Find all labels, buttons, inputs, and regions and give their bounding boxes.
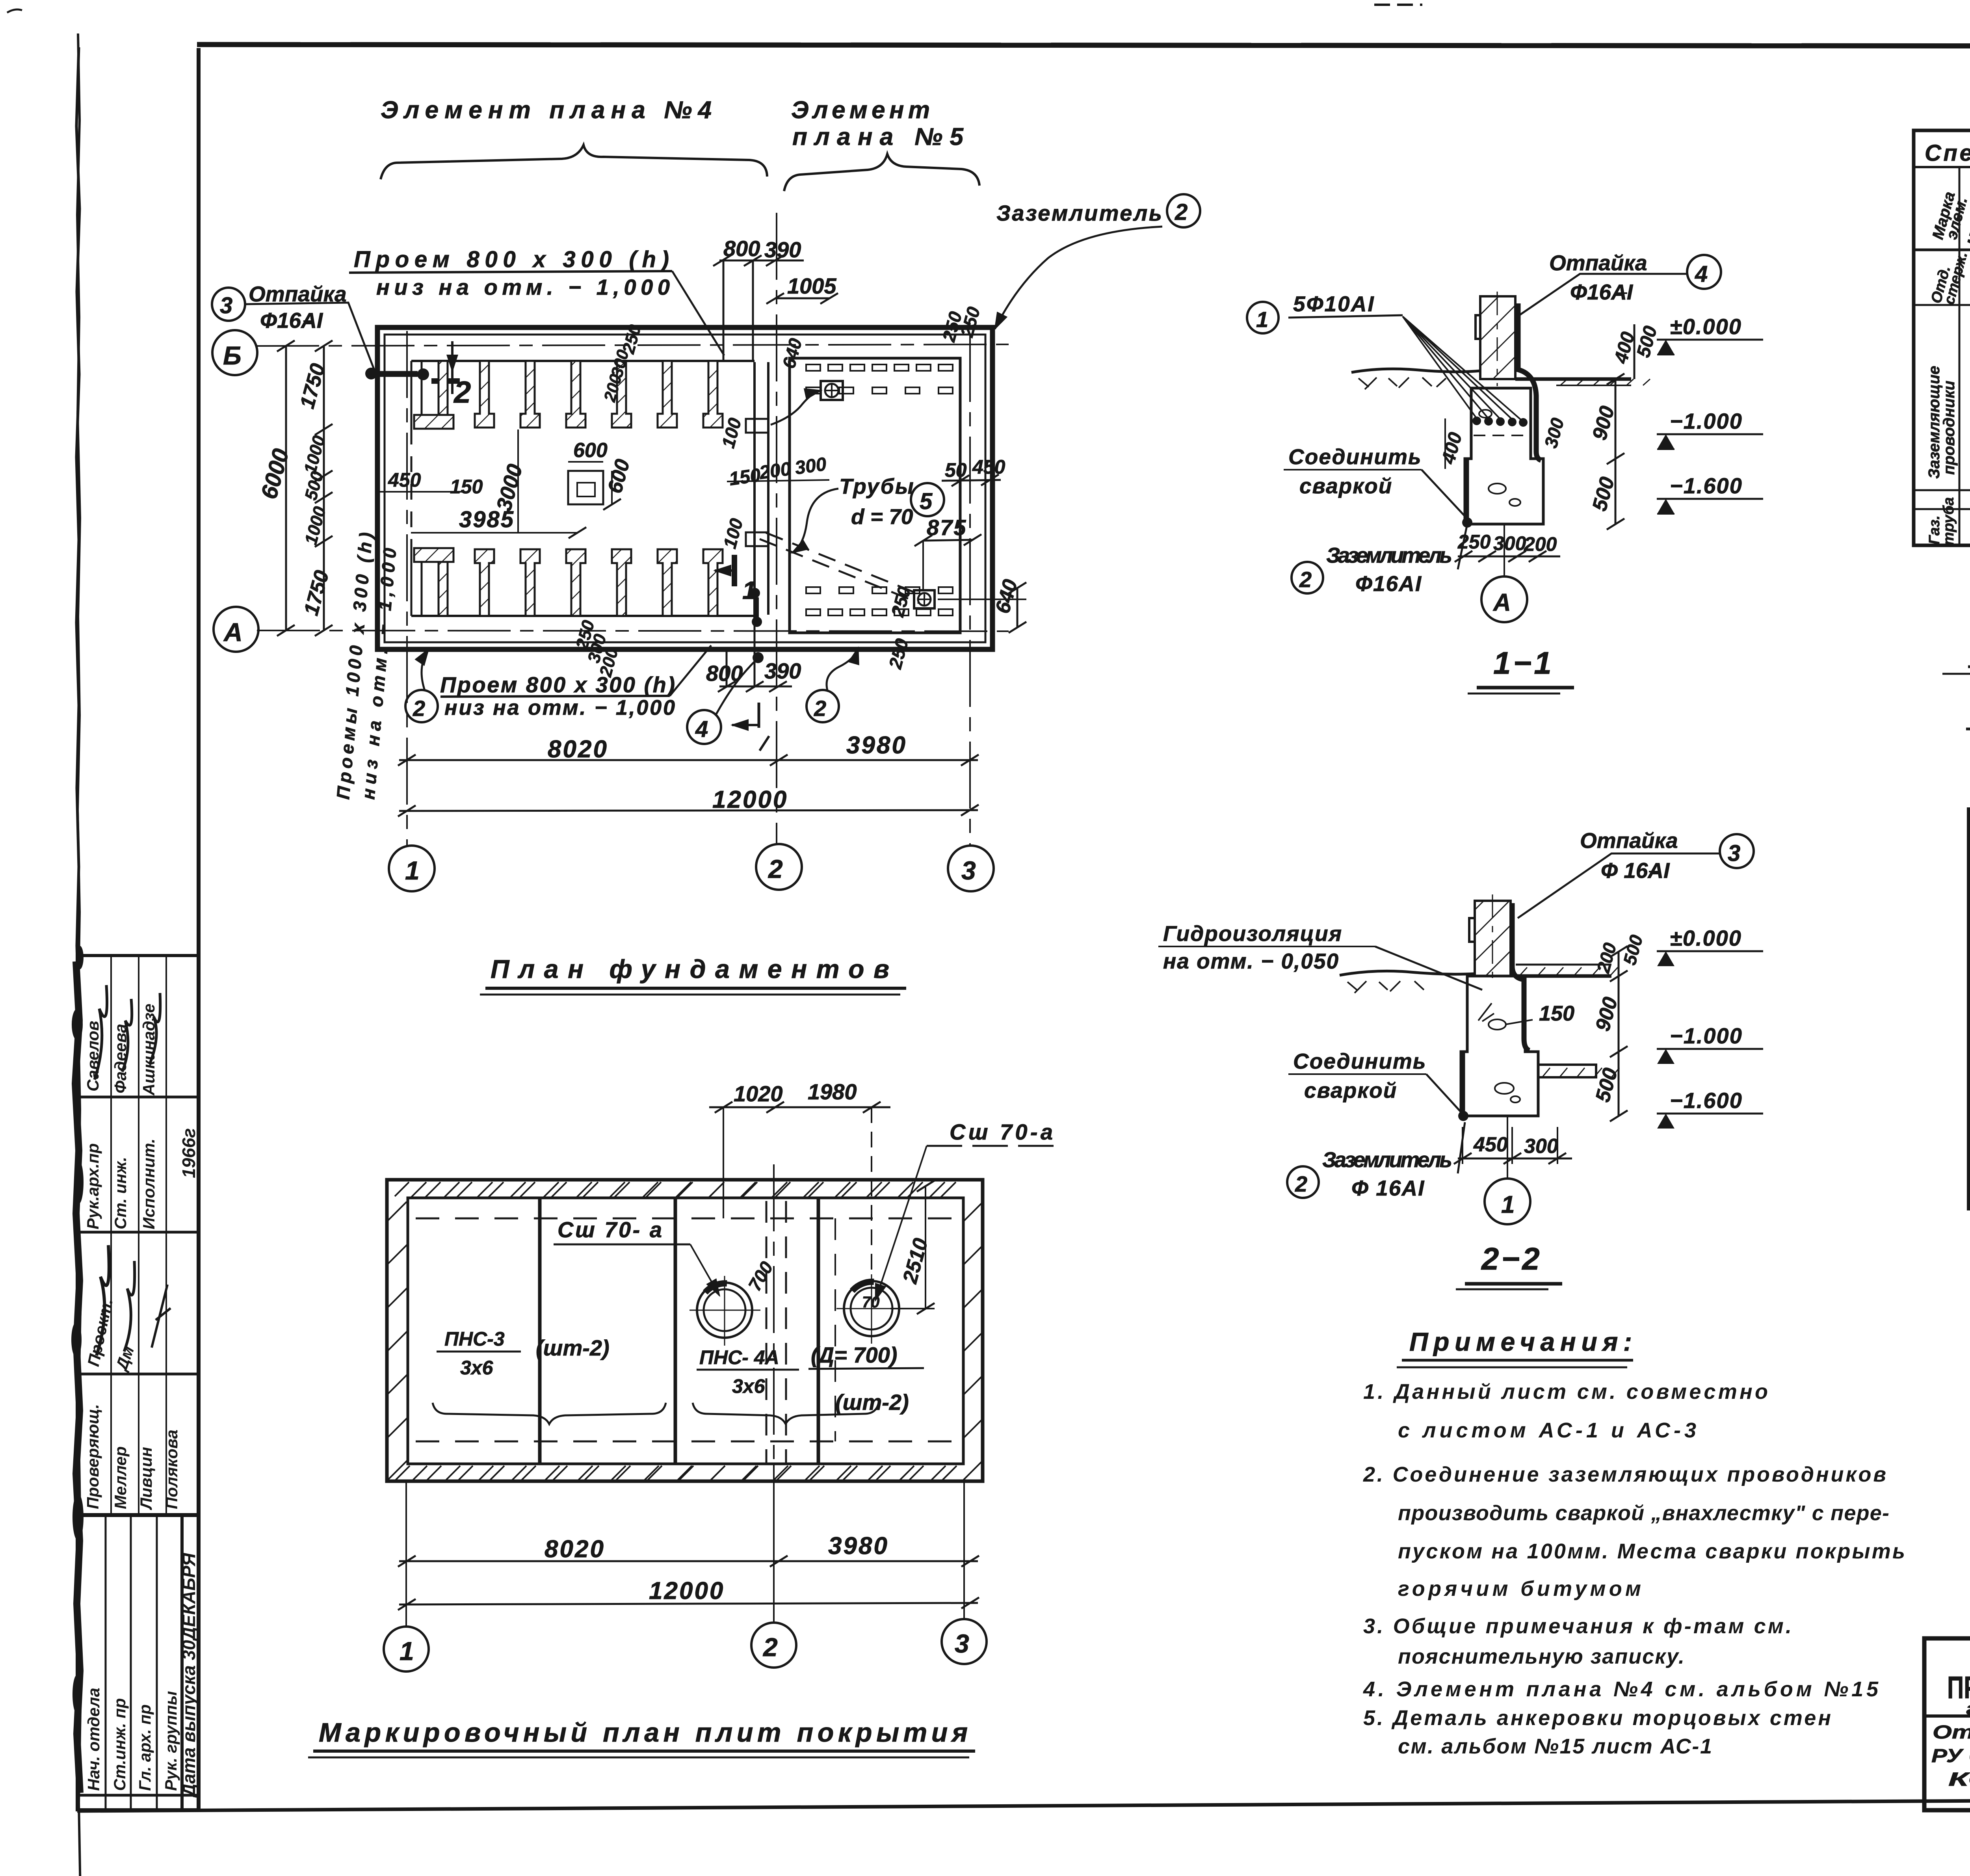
top dim line 800/390: [713, 255, 804, 361]
svg-text:Ст.инж. пр: Ст.инж. пр: [110, 1698, 129, 1791]
svg-text:3: 3: [220, 293, 232, 318]
leader to top anchor: [771, 390, 821, 425]
svg-text:Заземлитель: Заземлитель: [1322, 1147, 1452, 1172]
left dim chain 6000: [285, 346, 287, 630]
axis circle B: [212, 330, 257, 375]
hole circle 2: [844, 1281, 899, 1336]
svg-text:3980: 3980: [846, 732, 907, 759]
small mark top-left corner: [7, 9, 22, 13]
rebar table header bottom: [1914, 249, 1970, 251]
s22 floor ledge right: [1516, 964, 1611, 966]
dashed verticals middle: [766, 1201, 768, 1463]
bottom pilasters: [475, 549, 723, 616]
middle wall connector top: [746, 419, 768, 433]
svg-text:Нач. отдела: Нач. отдела: [84, 1688, 103, 1791]
section cut 1 lower: [750, 588, 760, 598]
s11 wall hatched: [1480, 296, 1515, 379]
svg-text:1966г: 1966г: [178, 1128, 199, 1178]
svg-text:3х6: 3х6: [460, 1357, 494, 1379]
svg-text:1: 1: [405, 856, 420, 885]
svg-text:План фундаментов: План фундаментов: [491, 954, 889, 984]
svg-text:(Д= 700): (Д= 700): [811, 1342, 897, 1367]
svg-text:Дата выпуска 30ДЕКАБРЯ: Дата выпуска 30ДЕКАБРЯ: [178, 1552, 199, 1798]
svg-text:Проем 800 х 300 (h): Проем 800 х 300 (h): [354, 247, 669, 272]
sheet left border: [197, 48, 201, 1811]
s11 fan leaders to rebar: [1403, 316, 1524, 422]
svg-text:Рук. группы: Рук. группы: [162, 1691, 180, 1791]
svg-text:Заземлитель: Заземлитель: [996, 201, 1162, 225]
left room walls: [411, 361, 755, 616]
svg-text:5Ф10АІ: 5Ф10АІ: [1293, 292, 1375, 316]
dashed earthing diagonal: [760, 539, 919, 603]
svg-text:Рук.арх.пр: Рук.арх.пр: [84, 1143, 102, 1229]
svg-text:Сш 70- а: Сш 70- а: [558, 1217, 662, 1242]
svg-text:150: 150: [1539, 1002, 1574, 1025]
svg-text:12000: 12000: [649, 1577, 725, 1605]
svg-text:(шт-2): (шт-2): [835, 1390, 909, 1415]
s11 wall centerline: [1497, 292, 1498, 386]
svg-text:1: 1: [1501, 1191, 1515, 1218]
s11 ground line: [1351, 369, 1481, 372]
rebar table row lines: [1914, 286, 1970, 528]
rebar table title band line: [1914, 166, 1970, 168]
circled 2 bottom right: [807, 690, 839, 722]
svg-text:Меллер: Меллер: [111, 1446, 130, 1509]
svg-text:2: 2: [1295, 1171, 1307, 1196]
stamp inner verticals lower: [105, 1515, 107, 1810]
svg-text:Исполнит.: Исполнит.: [139, 1139, 158, 1230]
axis circle 3: [948, 846, 994, 891]
dashed plate edges horizontal: [416, 1218, 961, 1220]
svg-text:1: 1: [1256, 307, 1268, 332]
s22 right dim chain: [1618, 952, 1620, 1116]
ragged sheet edge: [77, 33, 80, 1876]
svg-text:Гидроизоляция: Гидроизоляция: [1163, 921, 1342, 946]
bracket under pns-3: [433, 1403, 666, 1424]
marking plan outer rect: [387, 1180, 983, 1481]
svg-text:450: 450: [388, 469, 421, 491]
right room floor sleeves row1: [806, 364, 953, 615]
svg-text:Гл. арх. пр: Гл. арх. пр: [136, 1704, 154, 1791]
s11 bent bar right thick: [1518, 303, 1541, 460]
axis 2 dash-dot through marking plan: [773, 1164, 775, 1482]
middle wall: [753, 362, 756, 615]
svg-text:см. альбом №15 лист АС-1: см. альбом №15 лист АС-1: [1398, 1735, 1713, 1758]
sheet top border: [197, 45, 1970, 46]
stamp column outline: [77, 956, 198, 1810]
svg-text:с листом АС-1 и АС-3: с листом АС-1 и АС-3: [1398, 1419, 1697, 1442]
svg-text:пуском на 100мм. Места свар: пуском на 100мм. Места сварки покрыть: [1398, 1539, 1906, 1563]
svg-text:проводники: проводники: [1940, 381, 1958, 475]
axis circle 2: [756, 844, 802, 890]
svg-text:3: 3: [961, 856, 976, 885]
axis line A horizontal: [257, 630, 1009, 631]
marking plan hatched border: [387, 1182, 983, 1482]
svg-text:−1.000: −1.000: [1670, 1023, 1743, 1048]
svg-text:Заземлитель: Заземлитель: [1326, 543, 1452, 567]
svg-text:Отдельностоящее: Отдельностоящее: [1933, 1722, 1970, 1743]
plate joint lines: [538, 1198, 542, 1464]
svg-text:2: 2: [814, 696, 826, 721]
marking axis verticals: [405, 1481, 407, 1627]
svg-text:низ на отм. − 1,000: низ на отм. − 1,000: [444, 696, 675, 720]
svg-text:600: 600: [573, 439, 608, 462]
s22 axis circle 1: [1507, 1116, 1508, 1178]
left dim chain segments: [323, 346, 325, 630]
axis circle 1: [389, 846, 435, 891]
axis 3 vertical: [969, 335, 971, 846]
svg-text:450: 450: [1473, 1133, 1508, 1156]
s22 bent bar right thick: [1512, 903, 1530, 1050]
svg-text:3: 3: [955, 1629, 969, 1658]
s22 foundation profile: [1461, 976, 1538, 1116]
main dim line 12000: [399, 810, 978, 811]
svg-text:200: 200: [758, 458, 792, 483]
rebar spec table outline: [1914, 130, 1970, 545]
s11 floor slab right: [1515, 377, 1631, 381]
svg-text:Отпайка: Отпайка: [1549, 251, 1647, 275]
svg-text:1−1: 1−1: [1493, 645, 1554, 680]
main dim line 8020/3980: [399, 759, 978, 761]
section cut circle 4: [687, 710, 721, 744]
s22 pebbles: [1489, 1019, 1506, 1030]
svg-text:3980: 3980: [828, 1532, 889, 1560]
small dash top-middle: [1374, 4, 1422, 6]
sheet bottom border: [77, 1797, 1970, 1811]
building outer wall: [377, 327, 992, 649]
svg-text:8020: 8020: [548, 736, 608, 763]
svg-text:Проем 800 х 300 (h): Проем 800 х 300 (h): [440, 672, 675, 697]
svg-text:5: 5: [920, 489, 933, 514]
s22 ground line: [1340, 971, 1476, 975]
svg-text:А: А: [223, 617, 243, 647]
svg-text:Ф 16АІ: Ф 16АІ: [1601, 858, 1670, 883]
svg-text:Ф16АІ: Ф16АІ: [1570, 280, 1634, 304]
marking axis circle 3: [942, 1619, 987, 1664]
svg-text:390: 390: [764, 237, 801, 262]
svg-text:Спецификация арматуры на 1 э: Спецификация арматуры на 1 элемент: [1925, 140, 1970, 166]
section cut mark 2 top: [451, 341, 453, 394]
middle wall connector bottom: [746, 532, 768, 546]
precast table outline: [1969, 809, 1970, 1209]
brace plan element 5: [784, 154, 979, 191]
section cut 1 middle: [732, 555, 737, 586]
axis line B horizontal: [256, 344, 1009, 346]
svg-text:1020: 1020: [734, 1081, 783, 1106]
svg-text:4. Элемент плана №4 см.: 4. Элемент плана №4 см. альбом №15: [1363, 1677, 1879, 1701]
svg-text:РУ 6-10 кв. на 16 камер: РУ 6-10 кв. на 16 камер: [1931, 1746, 1970, 1766]
rebar table verticals: [1959, 130, 1970, 545]
svg-text:150: 150: [728, 465, 762, 490]
svg-text:±0.000: ±0.000: [1670, 926, 1742, 950]
building outer wall inner line: [385, 335, 985, 642]
svg-text:2: 2: [1175, 199, 1188, 225]
center pit 600x600: [568, 471, 603, 504]
marking dim 12000: [399, 1603, 978, 1605]
svg-text:300: 300: [1524, 1135, 1558, 1158]
svg-text:Соединить: Соединить: [1288, 444, 1422, 469]
svg-text:на отм. − 0,050: на отм. − 0,050: [1163, 949, 1339, 973]
svg-text:875: 875: [927, 515, 967, 540]
corner niche top-left: [411, 361, 439, 429]
precast table rows: [1969, 879, 1970, 1173]
svg-text:1. Данный лист см. совмест: 1. Данный лист см. совместно: [1363, 1380, 1769, 1404]
section 2-2: [1158, 828, 1763, 1289]
top pilasters: [475, 361, 723, 428]
svg-text:±0.000: ±0.000: [1670, 314, 1742, 339]
marking axis circle 2: [751, 1623, 796, 1668]
svg-text:Трубы: Трубы: [839, 474, 915, 498]
svg-text:2. Соединение заземляющих: 2. Соединение заземляющих проводников: [1363, 1463, 1887, 1486]
svg-text:−1.600: −1.600: [1670, 473, 1743, 498]
marking axis circle 1: [384, 1627, 429, 1671]
svg-text:А: А: [1492, 589, 1511, 616]
stamp inner verticals upper: [110, 956, 112, 1515]
svg-text:300: 300: [794, 454, 828, 479]
axis 2 vertical: [776, 213, 777, 845]
svg-text:−1.600: −1.600: [1670, 1088, 1743, 1113]
svg-text:производить сваркой „внахле: производить сваркой „внахлестку" с пере-: [1398, 1501, 1890, 1525]
svg-text:Сш 70-а: Сш 70-а: [950, 1119, 1053, 1144]
s11 rebar dots: [1472, 416, 1528, 427]
right room walls: [790, 358, 960, 633]
svg-text:Соединить: Соединить: [1293, 1049, 1427, 1073]
svg-text:ПНС-3: ПНС-3: [444, 1328, 505, 1350]
svg-text:2: 2: [1299, 567, 1312, 592]
notes text: [1363, 1380, 1906, 1758]
s11 bent bar left thick: [1464, 459, 1469, 522]
svg-text:Ст. инж.: Ст. инж.: [111, 1157, 130, 1229]
svg-text:сваркой: сваркой: [1299, 474, 1392, 498]
svg-text:150: 150: [450, 476, 483, 498]
earth anchor top: [821, 381, 843, 400]
svg-text:Б: Б: [223, 341, 242, 370]
svg-text:3х6: 3х6: [732, 1375, 766, 1397]
title block left row line: [1924, 1714, 1970, 1718]
s22 bent bar left thick: [1460, 1053, 1465, 1115]
bracket under pns-4a: [693, 1403, 879, 1424]
svg-text:12000: 12000: [712, 786, 788, 813]
svg-text:Ф16АІ: Ф16АІ: [1355, 571, 1422, 596]
axis 1 vertical: [406, 331, 408, 846]
svg-text:сваркой: сваркой: [1304, 1078, 1397, 1103]
left room left wall dashed opening: [411, 429, 413, 548]
svg-text:1980: 1980: [808, 1079, 857, 1104]
svg-text:Ливцин: Ливцин: [137, 1447, 155, 1510]
s11 pebbles: [1489, 483, 1506, 494]
svg-text:4: 4: [695, 716, 708, 742]
svg-text:1: 1: [400, 1636, 414, 1666]
s22 lower ledge right hatched: [1538, 1065, 1596, 1077]
svg-text:4: 4: [1695, 261, 1708, 287]
svg-text:390: 390: [764, 658, 801, 683]
circle 3 leader: [212, 288, 245, 321]
svg-text:труба: труба: [1940, 497, 1957, 545]
title block outline: [1924, 1638, 1970, 1810]
stamp cursive squiggles: [95, 985, 107, 1080]
svg-text:2: 2: [453, 375, 471, 409]
svg-text:200: 200: [1524, 533, 1557, 555]
svg-text:−1.000: −1.000: [1670, 409, 1743, 433]
stamp signatures cell text: [84, 1004, 199, 1798]
svg-text:300: 300: [1493, 532, 1526, 554]
svg-text:Ф 16АІ: Ф 16АІ: [1351, 1176, 1425, 1200]
hole circle 1: [697, 1283, 752, 1338]
svg-text:2−2: 2−2: [1481, 1241, 1542, 1276]
s11 foundation upper block: [1465, 388, 1543, 524]
marking dim 8020/3980: [399, 1560, 978, 1562]
svg-text:ПНС- 4А: ПНС- 4А: [699, 1346, 779, 1368]
svg-text:2: 2: [768, 854, 783, 883]
svg-text:5. Деталь анкеровки торцовы: 5. Деталь анкеровки торцовых стен: [1363, 1706, 1832, 1730]
svg-text:450: 450: [972, 456, 1005, 478]
earth anchor bottom: [914, 590, 935, 608]
svg-text:d = 70: d = 70: [851, 504, 913, 529]
svg-text:(шт-2): (шт-2): [536, 1335, 610, 1360]
svg-text:1005: 1005: [787, 273, 836, 298]
svg-text:Полякова: Полякова: [162, 1430, 181, 1509]
corner niche bottom-left: [411, 548, 439, 616]
section 1-1: [1247, 251, 1763, 694]
s11 right dim chain: [1615, 379, 1617, 524]
brace plan element 4: [381, 145, 767, 179]
svg-text:2: 2: [413, 696, 425, 721]
svg-text:Отпайка: Отпайка: [1580, 828, 1678, 853]
svg-text:г. Москва- 1966 г.: г. Москва- 1966 г.: [1966, 1698, 1970, 1719]
s11 axis circle A: [1504, 524, 1505, 576]
svg-text:пояснительную записку.: пояснительную записку.: [1398, 1645, 1686, 1668]
s22 wall hatched: [1475, 901, 1511, 976]
svg-text:8020: 8020: [545, 1536, 605, 1563]
stamp row lines: [77, 1096, 198, 1099]
svg-text:КСО- 266: КСО- 266: [1948, 1769, 1970, 1790]
svg-text:3: 3: [1728, 840, 1740, 866]
axis circle A: [214, 607, 258, 652]
svg-text:2: 2: [762, 1632, 778, 1662]
svg-text:3. Общие примечания к ф-т: 3. Общие примечания к ф-там см.: [1363, 1614, 1793, 1638]
svg-text:Проверяющ.: Проверяющ.: [84, 1404, 102, 1509]
marking plan inner rect: [408, 1198, 963, 1464]
